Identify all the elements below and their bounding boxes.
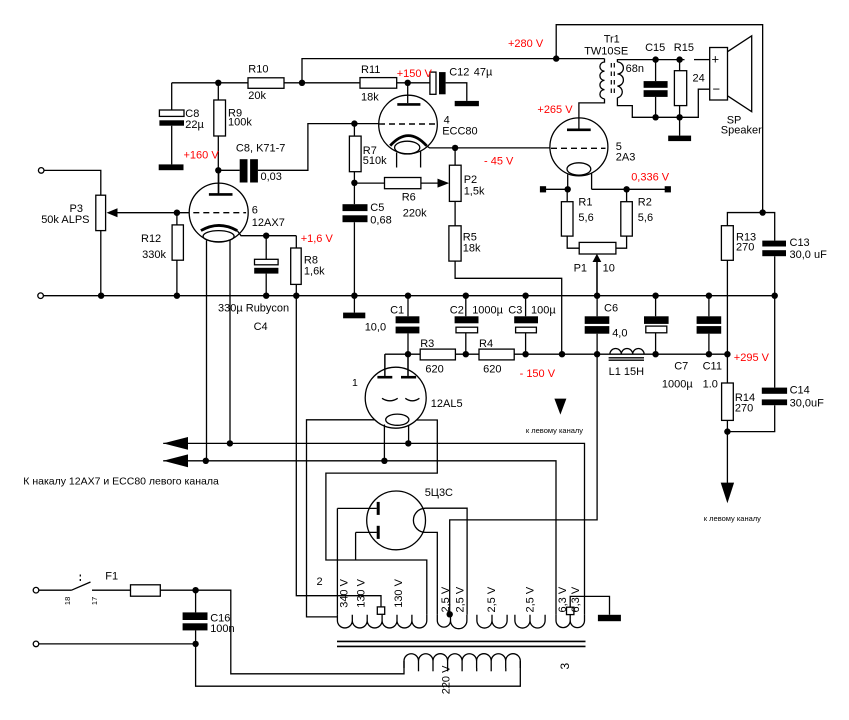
svg-text:- 150 V: - 150 V xyxy=(520,368,556,380)
svg-text:50k ALPS: 50k ALPS xyxy=(41,214,89,226)
svg-text:C5: C5 xyxy=(370,202,384,214)
svg-text:0,03: 0,03 xyxy=(261,171,282,183)
svg-text:2,5 V: 2,5 V xyxy=(454,586,466,612)
svg-text:10,0: 10,0 xyxy=(365,322,386,334)
svg-text:18: 18 xyxy=(63,597,72,605)
svg-text:47µ: 47µ xyxy=(474,66,493,78)
svg-text:620: 620 xyxy=(425,364,443,376)
svg-text:17: 17 xyxy=(90,597,99,605)
svg-text:12AX7: 12AX7 xyxy=(252,217,285,229)
svg-text:3: 3 xyxy=(558,663,572,670)
svg-text:R11: R11 xyxy=(361,64,380,76)
svg-text:24: 24 xyxy=(693,73,705,85)
svg-text:Tr1: Tr1 xyxy=(604,34,620,46)
svg-text:F1: F1 xyxy=(105,570,118,582)
svg-text:C6: C6 xyxy=(604,303,618,315)
svg-text:0,68: 0,68 xyxy=(370,215,391,227)
svg-text:6,3 V: 6,3 V xyxy=(570,586,582,612)
svg-text:R10: R10 xyxy=(248,63,268,75)
svg-text:Speaker: Speaker xyxy=(721,124,762,136)
svg-text:1,5k: 1,5k xyxy=(464,185,485,197)
svg-text:10: 10 xyxy=(603,263,615,275)
svg-text:18k: 18k xyxy=(361,91,379,103)
svg-text:- 45 V: - 45 V xyxy=(484,156,514,168)
svg-text:+295 V: +295 V xyxy=(734,352,770,364)
svg-text:2,5 V: 2,5 V xyxy=(486,586,498,612)
svg-text:4,0: 4,0 xyxy=(612,327,627,339)
svg-text:L1 15H: L1 15H xyxy=(609,366,645,378)
svg-text:ECC80: ECC80 xyxy=(442,126,477,138)
svg-text:270: 270 xyxy=(735,403,753,415)
svg-text:130 V: 130 V xyxy=(355,578,367,607)
svg-text:30,0 uF: 30,0 uF xyxy=(790,249,828,261)
svg-text:C8, K71-7: C8, K71-7 xyxy=(236,142,286,154)
svg-text:+160 V: +160 V xyxy=(184,149,220,161)
svg-text:270: 270 xyxy=(736,241,754,253)
svg-text:R2: R2 xyxy=(638,196,652,208)
svg-text:TW10SE: TW10SE xyxy=(584,45,628,57)
svg-text:P1: P1 xyxy=(574,263,587,275)
svg-text:6: 6 xyxy=(252,204,258,216)
svg-text:20k: 20k xyxy=(248,90,266,102)
svg-text:22µ: 22µ xyxy=(185,119,204,131)
svg-text:R1: R1 xyxy=(578,196,592,208)
svg-text:C14: C14 xyxy=(790,384,810,396)
svg-text:к левому каналу: к левому каналу xyxy=(704,514,761,523)
svg-text:2A3: 2A3 xyxy=(616,152,636,164)
svg-text:2: 2 xyxy=(317,576,323,588)
svg-text:12AL5: 12AL5 xyxy=(431,398,463,410)
svg-text:+150 V: +150 V xyxy=(397,68,433,80)
svg-text:C12: C12 xyxy=(449,66,469,78)
svg-text:2,5 V: 2,5 V xyxy=(440,586,452,612)
svg-text:1.0: 1.0 xyxy=(703,378,718,390)
svg-text:к левому каналу: к левому каналу xyxy=(526,426,583,435)
svg-text:C4: C4 xyxy=(254,321,268,333)
svg-text:100n: 100n xyxy=(210,623,234,635)
svg-text:510k: 510k xyxy=(363,155,387,167)
svg-text:1: 1 xyxy=(352,377,358,389)
svg-text:R12: R12 xyxy=(141,233,161,245)
svg-text:1,6k: 1,6k xyxy=(304,265,325,277)
svg-text:2,5 V: 2,5 V xyxy=(524,586,536,612)
svg-text:P2: P2 xyxy=(464,174,477,186)
svg-text:68n: 68n xyxy=(626,63,644,75)
svg-text:5,6: 5,6 xyxy=(578,212,593,224)
svg-text:330µ Rubycon: 330µ Rubycon xyxy=(218,303,289,315)
svg-text:100k: 100k xyxy=(228,117,252,129)
svg-text:220 V: 220 V xyxy=(441,665,453,694)
svg-text:C7: C7 xyxy=(674,361,688,373)
svg-text:+265 V: +265 V xyxy=(537,104,573,116)
svg-text:1000µ: 1000µ xyxy=(472,305,503,317)
svg-text:R6: R6 xyxy=(402,192,416,204)
svg-text:C2: C2 xyxy=(450,305,464,317)
svg-text:620: 620 xyxy=(483,364,501,376)
svg-text:0,336 V: 0,336 V xyxy=(631,172,670,184)
svg-text:C15: C15 xyxy=(645,42,665,54)
svg-text:R4: R4 xyxy=(479,338,493,350)
svg-text:1000µ: 1000µ xyxy=(662,378,693,390)
svg-text:C13: C13 xyxy=(790,237,810,249)
svg-text:6,3 V: 6,3 V xyxy=(557,586,569,612)
svg-text:18k: 18k xyxy=(463,242,481,254)
svg-text:330k: 330k xyxy=(142,249,166,261)
svg-text:5,6: 5,6 xyxy=(638,212,653,224)
svg-text:C1: C1 xyxy=(390,305,404,317)
svg-text:340 V: 340 V xyxy=(338,578,350,607)
svg-text:+: + xyxy=(712,52,720,67)
svg-text:220k: 220k xyxy=(403,208,427,220)
svg-text:130 V: 130 V xyxy=(393,578,405,607)
svg-text:−: − xyxy=(713,82,721,97)
svg-text:+280 V: +280 V xyxy=(508,38,544,50)
svg-text:C3: C3 xyxy=(508,305,522,317)
svg-text:R3: R3 xyxy=(420,338,434,350)
svg-text:К накалу 12АХ7 и ЕСС80 левого: К накалу 12АХ7 и ЕСС80 левого канала xyxy=(23,475,219,487)
svg-text:5Ц3С: 5Ц3С xyxy=(425,487,453,499)
svg-text:30,0uF: 30,0uF xyxy=(790,398,825,410)
svg-text:C11: C11 xyxy=(703,361,722,373)
svg-text:100µ: 100µ xyxy=(531,305,556,317)
svg-text:+1,6 V: +1,6 V xyxy=(301,233,334,245)
svg-text:R15: R15 xyxy=(674,42,694,54)
